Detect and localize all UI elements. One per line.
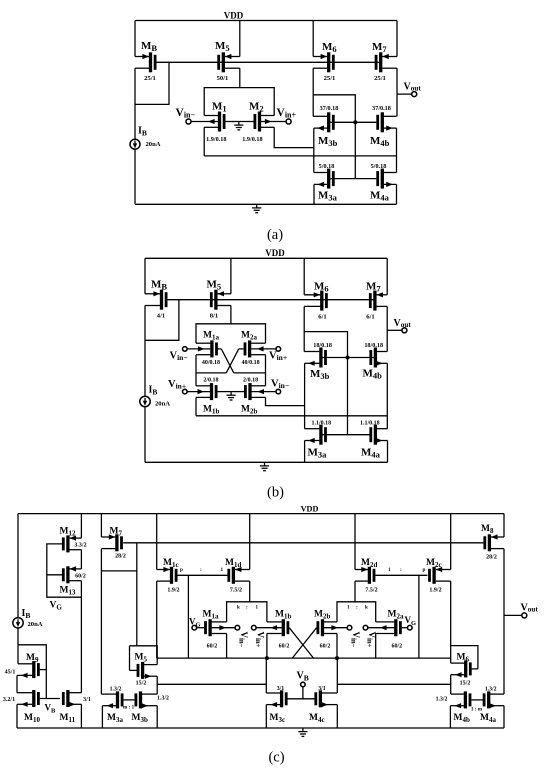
- svg-text:M4b: M4b: [454, 713, 470, 724]
- input terminal Vin+ top (b): [269, 347, 287, 362]
- svg-text:2/0.18: 2/0.18: [203, 377, 218, 383]
- wire M6 source down (c): [450, 675, 452, 694]
- wire M1 drain to M4b source: [204, 155, 396, 157]
- svg-text:M3b: M3b: [132, 713, 148, 724]
- wire cross node right (b): [234, 372, 266, 374]
- svg-text:20nA: 20nA: [28, 621, 43, 628]
- transistor M7 (b): [366, 280, 387, 320]
- wire M6 drain down (b): [303, 306, 305, 351]
- transistor M4a (c): [480, 686, 504, 724]
- svg-text:M5: M5: [135, 653, 148, 664]
- svg-text:7.5/2: 7.5/2: [230, 587, 242, 593]
- caption (a): [267, 227, 283, 243]
- wire M1b source to M4b source (b): [196, 415, 387, 417]
- svg-text:M5: M5: [207, 279, 222, 292]
- svg-text:1: 1: [221, 567, 224, 573]
- transistor M4c (c): [309, 686, 337, 724]
- ratio label 1:m (c): [471, 707, 483, 713]
- wire bias to M5 gate (c): [130, 571, 137, 646]
- wire M3a source to ground (b): [304, 441, 306, 463]
- svg-text:1.9/0.18: 1.9/0.18: [206, 136, 226, 143]
- svg-text:M3a: M3a: [308, 446, 328, 459]
- wire M6 source to M4c drain (c): [337, 683, 450, 685]
- wire M2c drain down (c): [450, 581, 452, 663]
- wire M1c gates to bus (c): [187, 575, 189, 658]
- svg-text:VDD: VDD: [265, 248, 285, 258]
- svg-text:M4b: M4b: [363, 368, 383, 381]
- svg-text:M11: M11: [60, 713, 76, 724]
- ratio label 1:k (c): [347, 604, 368, 610]
- svg-text:1: 1: [347, 604, 350, 610]
- wire cascode bias branch (b): [304, 332, 347, 435]
- wire M2d source feed (c): [354, 514, 356, 570]
- wire M4b source to ground (c): [449, 706, 451, 728]
- transistor M6 (a): [313, 41, 336, 82]
- terminal VB (c): [297, 671, 309, 699]
- ground (a): [252, 204, 261, 212]
- svg-text:M6: M6: [322, 41, 337, 54]
- transistor M6 (c): [451, 653, 478, 687]
- wire M3b source / M3a drain (b): [304, 363, 306, 428]
- svg-text:Vin−: Vin−: [237, 632, 248, 648]
- ground gates M1b/M2b (b): [227, 392, 236, 400]
- input terminal Vin+ bottom (b): [168, 379, 187, 394]
- current source IB (b): [140, 385, 170, 408]
- svg-text:20nA: 20nA: [146, 141, 161, 148]
- wire M5 drain to tail (b): [230, 306, 232, 324]
- svg-text:(c): (c): [268, 750, 284, 766]
- transistor M2b (c): [314, 609, 347, 649]
- svg-text:M3c: M3c: [270, 713, 286, 724]
- wire gate rail (b): [167, 299, 375, 301]
- svg-text:M12: M12: [60, 527, 76, 538]
- svg-text:M1b: M1b: [275, 609, 291, 620]
- svg-text:Vout: Vout: [521, 603, 539, 614]
- svg-text:1.9/2: 1.9/2: [167, 587, 179, 593]
- svg-text:18/0.18: 18/0.18: [364, 342, 383, 349]
- transistor M3b (c): [132, 691, 169, 723]
- wire IB to ground rail: [134, 149, 136, 204]
- svg-text:M4a: M4a: [480, 713, 496, 724]
- wire M3c drain to bus tap (c): [265, 658, 267, 693]
- svg-text:M7: M7: [366, 280, 381, 293]
- svg-text:60/2: 60/2: [320, 643, 331, 649]
- wire M1 drain down: [203, 127, 205, 156]
- wire M7 source feed: [396, 21, 398, 57]
- transistor M4b (a): [355, 105, 396, 148]
- wire M2b source to M3b source (b): [266, 397, 305, 405]
- transistor M4a (a): [370, 163, 397, 202]
- terminal VG right (c): [405, 615, 417, 630]
- wire M1d drain to k:1 box (c): [249, 581, 251, 602]
- svg-text:1.1/0.18: 1.1/0.18: [360, 421, 380, 427]
- transistor M1c (c): [157, 558, 180, 594]
- svg-text:1.3/2: 1.3/2: [485, 686, 497, 692]
- svg-text:1.9/2: 1.9/2: [429, 587, 441, 593]
- wire M13 gate stub: [47, 574, 63, 576]
- wire tail box (a): [204, 88, 274, 116]
- svg-text:50/1: 50/1: [217, 75, 229, 82]
- wire M3c source to ground (c): [265, 705, 267, 728]
- transistor M2a (c): [368, 609, 407, 649]
- svg-text::: :: [246, 604, 248, 610]
- svg-text:M2b: M2b: [314, 609, 330, 620]
- transistor M5 (b): [207, 279, 231, 320]
- svg-text:Vout: Vout: [394, 318, 412, 329]
- wire cross-couple diagonal 1 (b): [221, 349, 234, 373]
- svg-text:60/2: 60/2: [279, 643, 290, 649]
- svg-text:M1a: M1a: [203, 331, 219, 342]
- net VB label left (c): [45, 703, 57, 715]
- wire M2c source feed (c): [450, 514, 452, 570]
- wire M5 source to M3c drain (c): [157, 683, 266, 685]
- svg-text:M7: M7: [372, 41, 387, 54]
- wire M2 drain to M3b source: [274, 127, 314, 147]
- svg-text:VDD: VDD: [301, 505, 319, 514]
- wire M1d source feed (c): [249, 514, 251, 570]
- wire ground rail (b): [145, 461, 388, 463]
- svg-text:M2d: M2d: [361, 558, 377, 569]
- wire M9 source to M10 drain: [16, 675, 18, 692]
- svg-text:3.3/2: 3.3/2: [74, 542, 86, 548]
- transistor M2c (c): [426, 558, 451, 594]
- wire M2d/M2c gate rail (c): [375, 574, 427, 576]
- svg-text:M1: M1: [212, 101, 227, 114]
- svg-text::: :: [356, 604, 358, 610]
- wire M5 gate feed (c): [129, 646, 131, 671]
- svg-text:28/2: 28/2: [115, 554, 126, 560]
- output terminal Vout (b): [387, 318, 411, 333]
- output terminal Vout (c): [504, 603, 538, 618]
- node cascode bias (b): [346, 356, 350, 360]
- svg-text:3/1: 3/1: [318, 686, 326, 692]
- wire gate rail MB-M5-M6-M7 (a): [156, 61, 381, 63]
- svg-text:M1b: M1b: [203, 405, 219, 416]
- wire M5 drain to tail: [239, 68, 241, 87]
- svg-text:60/2: 60/2: [75, 573, 86, 579]
- wire M13 drain down: [80, 581, 82, 693]
- svg-text:M3a: M3a: [107, 713, 123, 724]
- wire M1a drain to bus (c): [226, 634, 228, 659]
- input terminal Vin- top (b): [170, 347, 188, 362]
- ground (b): [260, 462, 269, 470]
- svg-text:M4c: M4c: [309, 713, 325, 724]
- wire M12 source feed (c): [80, 514, 82, 539]
- transistor M3a (a): [314, 163, 377, 202]
- wire M7/M8 gate rail (c): [123, 542, 483, 544]
- wire MB diode loop (b): [145, 300, 179, 341]
- wire M10 source to ground: [16, 704, 18, 728]
- net VDD label (a): [224, 11, 244, 21]
- svg-text:6/1: 6/1: [318, 313, 326, 320]
- wire VDD rail (c): [18, 513, 504, 515]
- wire IB feed (c): [17, 514, 19, 618]
- svg-text:3.2/1: 3.2/1: [3, 697, 15, 703]
- transistor M10 (c): [3, 690, 60, 724]
- transistor M3b (b): [304, 342, 347, 381]
- svg-text:18/0.18: 18/0.18: [313, 342, 332, 349]
- svg-text:M2b: M2b: [241, 405, 257, 416]
- svg-text:MB: MB: [141, 40, 157, 53]
- transistor M11 (c): [60, 690, 91, 724]
- wire M4c drain to bus tap (c): [336, 658, 338, 693]
- wire M1c drain to bus (c): [156, 581, 158, 658]
- transistor M3b (a): [313, 105, 355, 148]
- wire cross diagonal 1 (c): [289, 628, 313, 658]
- svg-text:Vin+: Vin+: [168, 379, 186, 391]
- svg-text:M8: M8: [481, 524, 494, 535]
- svg-text:6/1: 6/1: [366, 313, 374, 320]
- wire M3a source to ground: [313, 184, 315, 204]
- ground (c): [298, 728, 307, 736]
- transistor M5 (c): [130, 653, 158, 687]
- wire M3b source to ground (c): [156, 706, 158, 728]
- svg-text:37/0.18: 37/0.18: [320, 105, 339, 112]
- svg-text:28/2: 28/2: [486, 555, 497, 561]
- wire M1c source feed (c): [156, 514, 158, 570]
- svg-text:MB: MB: [151, 279, 167, 292]
- svg-text:Vout: Vout: [404, 82, 422, 93]
- ratio label k:1 (c): [237, 604, 259, 610]
- svg-text:M1c: M1c: [163, 558, 179, 569]
- transistor M2b (b): [231, 377, 276, 415]
- svg-text:VG: VG: [50, 601, 63, 612]
- svg-text:M10: M10: [24, 713, 40, 724]
- wire M8 drain to Vout/M4a (c): [503, 549, 505, 695]
- wire cascode gate bias branch (a): [313, 95, 355, 179]
- svg-text:3/1: 3/1: [277, 686, 285, 692]
- wire VDD rail (b): [145, 257, 387, 259]
- wire M12 drain to M13 source: [80, 550, 82, 569]
- svg-text:k: k: [365, 604, 368, 610]
- wire M5 drain link (c): [137, 646, 157, 665]
- transistor M7 (c): [101, 527, 125, 560]
- svg-text:M13: M13: [60, 586, 76, 597]
- input terminal Vin- left (c): [235, 625, 249, 647]
- transistor M13 (c): [60, 566, 86, 596]
- net VDD label (b): [265, 248, 285, 258]
- svg-text:1: 1: [256, 604, 259, 610]
- transistor M2 (a): [239, 101, 286, 144]
- wire M5 source feed: [239, 21, 241, 57]
- wire M2c gates to bus (c): [418, 575, 420, 658]
- input terminal Vin- bottom (b): [271, 379, 289, 394]
- svg-text:IB: IB: [22, 608, 31, 620]
- wire M7 drain to Vout/M4b: [396, 68, 398, 116]
- wire M4a source to ground (b): [387, 441, 389, 463]
- node bus M4c tap (c): [335, 656, 339, 660]
- wire M2a drain to bus (c): [375, 634, 377, 659]
- svg-text:M2a: M2a: [388, 609, 404, 620]
- transistor M8 (c): [481, 524, 504, 561]
- wire cross diagonal 2 (c): [292, 628, 316, 658]
- wire M5 source feed (b): [230, 258, 232, 294]
- svg-text:M6: M6: [457, 653, 470, 664]
- svg-text::: :: [200, 567, 202, 573]
- wire M4c source to ground (c): [336, 705, 338, 728]
- svg-text:Vin+: Vin+: [269, 351, 287, 363]
- svg-text:M6: M6: [314, 280, 329, 293]
- wire M4b source / M4a drain: [396, 128, 398, 172]
- current source IB (c): [13, 608, 43, 628]
- caption (b): [267, 485, 284, 501]
- transistor M5 (a): [215, 40, 240, 82]
- net VG label left (c): [50, 601, 63, 612]
- wire M7 diode loop (c): [101, 543, 136, 571]
- wire tail box (b): [196, 324, 266, 343]
- wire MB drain to IB: [134, 68, 136, 139]
- svg-text:25/1: 25/1: [324, 75, 336, 82]
- wire M4b source / M4a drain (b): [386, 363, 388, 428]
- wire M5 source down (c): [156, 676, 158, 694]
- svg-text:37/0.18: 37/0.18: [372, 105, 391, 112]
- svg-text:M1a: M1a: [203, 609, 219, 620]
- wire M1c/M1d gate rail (c): [177, 574, 228, 576]
- transistor M3a (c): [101, 686, 134, 724]
- transistor M1d (c): [225, 558, 250, 594]
- wire MB source feed: [134, 21, 136, 57]
- svg-text:VG: VG: [405, 615, 417, 627]
- svg-text:(b): (b): [267, 485, 284, 501]
- wire cross-couple diagonal 2 (b): [226, 349, 239, 373]
- node cascode gate bias (a): [353, 120, 357, 124]
- transistor M7 (a): [372, 41, 397, 82]
- ratio label m:1 (c): [123, 704, 135, 710]
- svg-text:M1d: M1d: [225, 558, 241, 569]
- svg-text:IB: IB: [138, 126, 147, 138]
- transistor M3a (b): [305, 421, 371, 460]
- svg-text:4/1: 4/1: [157, 313, 165, 320]
- transistor MB (b): [145, 279, 168, 320]
- svg-text:M3a: M3a: [318, 189, 338, 202]
- wire M12/M13 gate tie (c): [47, 544, 82, 597]
- svg-text:Vin−: Vin−: [176, 107, 196, 120]
- svg-text:VDD: VDD: [224, 11, 244, 21]
- wire k:1 source box (c): [227, 602, 267, 622]
- svg-text:M2: M2: [249, 101, 264, 114]
- svg-text:Vin−: Vin−: [170, 351, 188, 363]
- svg-text:Vin−: Vin−: [271, 379, 289, 391]
- svg-text:40/0.18: 40/0.18: [242, 360, 260, 366]
- wire M3a source to ground (c): [101, 706, 103, 728]
- svg-text:VB: VB: [45, 703, 57, 715]
- wire M8 source feed (c): [503, 514, 505, 537]
- wire M2a drain to M2b drain: [265, 355, 267, 386]
- svg-text:60/2: 60/2: [207, 643, 218, 649]
- transistor M9 (c): [5, 653, 47, 678]
- wire M4a source to ground: [396, 184, 398, 204]
- wire M7 source feed (c): [100, 514, 102, 537]
- svg-text:1 : m: 1 : m: [471, 707, 483, 713]
- svg-text:VB: VB: [297, 671, 309, 683]
- transistor M1b (b): [187, 377, 231, 415]
- wire M7 drain down to M3a (c): [100, 549, 102, 695]
- svg-text:5/0.18: 5/0.18: [371, 163, 387, 170]
- output terminal Vout (a): [397, 82, 421, 97]
- svg-text:(a): (a): [267, 227, 283, 243]
- input terminal Vin+ (a): [277, 107, 297, 124]
- svg-text:p: p: [180, 567, 183, 573]
- svg-text:15/2: 15/2: [136, 680, 147, 686]
- svg-text:1: 1: [388, 567, 391, 573]
- wire M11 source to ground: [80, 704, 82, 728]
- svg-text:VG: VG: [189, 616, 201, 628]
- svg-text:Vin−: Vin−: [350, 632, 361, 648]
- input terminal Vin+ left (c): [252, 625, 266, 647]
- svg-text:M4a: M4a: [370, 189, 390, 202]
- wire ground rail (c): [17, 727, 504, 729]
- svg-text:45/1: 45/1: [5, 669, 16, 675]
- svg-text:M3b: M3b: [310, 368, 330, 381]
- svg-text:1.3/2: 1.3/2: [157, 696, 169, 702]
- svg-text:M4a: M4a: [361, 446, 381, 459]
- wire M1a drain to M1b drain: [195, 355, 197, 386]
- transistor M1 (a): [191, 101, 239, 144]
- svg-text:1.3/2: 1.3/2: [110, 686, 122, 692]
- wire IB to M9 (c): [17, 628, 19, 664]
- svg-text:M2a: M2a: [241, 331, 257, 342]
- svg-text:1.9/0.18: 1.9/0.18: [242, 136, 262, 143]
- svg-text:m : 1: m : 1: [123, 704, 135, 710]
- svg-text:1.1/0.18: 1.1/0.18: [311, 421, 331, 427]
- transistor M12 (c): [60, 527, 87, 553]
- svg-text:25/1: 25/1: [374, 75, 386, 82]
- wire M4a source to ground (c): [503, 706, 505, 728]
- svg-text:M9: M9: [26, 653, 39, 664]
- wire 1:k source box (c): [337, 602, 376, 622]
- svg-text:IB: IB: [149, 385, 158, 397]
- wire ground rail (a): [135, 203, 397, 205]
- svg-text:M3b: M3b: [318, 135, 338, 148]
- wire MB source feed (b): [144, 258, 146, 294]
- transistor M4b (b): [348, 342, 388, 381]
- svg-text:5/0.18: 5/0.18: [319, 163, 335, 170]
- transistor M4b (c): [436, 691, 483, 723]
- svg-text::: :: [400, 567, 402, 573]
- ground gate of M1/M2: [234, 122, 243, 130]
- node bus M3c tap (c): [265, 656, 269, 660]
- wire M6 source feed: [312, 21, 314, 57]
- wire M1b source down (b): [195, 397, 197, 415]
- svg-text:7.5/2: 7.5/2: [365, 587, 377, 593]
- svg-text:3/1: 3/1: [83, 697, 91, 703]
- wire IB to VB bias (c): [18, 645, 46, 699]
- ratio label 1:p (c): [388, 567, 426, 573]
- svg-text:2/0.18: 2/0.18: [243, 377, 258, 383]
- input terminal Vin- right (c): [347, 625, 361, 647]
- wire M7 source feed (b): [386, 258, 388, 295]
- input terminal Vin+ right (c): [363, 625, 377, 647]
- wire MB diode loop: [135, 62, 169, 104]
- wire drain bus (c): [157, 657, 451, 659]
- transistor M2d (c): [355, 558, 378, 594]
- wire M2b drain to bus (c): [336, 634, 338, 659]
- wire IB to ground rail (b): [144, 407, 146, 463]
- wire cross node left (b): [196, 372, 226, 374]
- wire M1b drain to bus (c): [266, 634, 268, 659]
- svg-text:20nA: 20nA: [155, 401, 170, 408]
- svg-text:60/2: 60/2: [391, 643, 402, 649]
- svg-text:M7: M7: [110, 527, 123, 538]
- svg-text:M5: M5: [215, 40, 230, 53]
- wire M2d drain to 1:k box (c): [354, 581, 356, 602]
- svg-text:25/1: 25/1: [144, 75, 156, 82]
- transistor M6 (b): [304, 280, 328, 320]
- transistor M3c (c): [266, 686, 315, 724]
- current source IB (a): [130, 126, 161, 150]
- transistor M1a (b): [187, 331, 221, 366]
- wire M6 drain down to M3b: [312, 68, 314, 116]
